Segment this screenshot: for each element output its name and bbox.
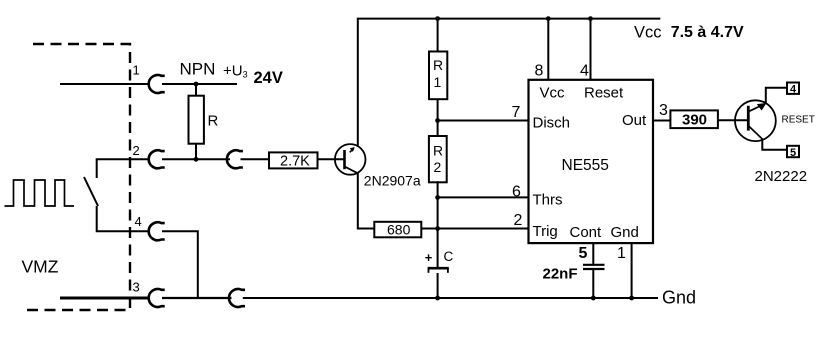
connector pin3 xyxy=(149,289,165,307)
svg-text:5: 5 xyxy=(579,245,588,262)
svg-text:4: 4 xyxy=(580,63,589,80)
connector pin4 xyxy=(149,222,165,240)
svg-text:1: 1 xyxy=(617,245,626,262)
node junction pin1/R xyxy=(194,82,199,87)
wire Q1 emitter to top rail xyxy=(357,19,359,147)
wire pin5 xyxy=(592,243,594,264)
wire pin1 left xyxy=(60,83,150,85)
node junction Thrs xyxy=(435,195,440,200)
wire pin1 gnd xyxy=(631,243,633,298)
svg-text:RESET: RESET xyxy=(782,115,815,126)
svg-text:2: 2 xyxy=(133,143,140,158)
svg-text:6: 6 xyxy=(512,183,521,200)
resistor 2.7K xyxy=(269,152,318,168)
wire R top xyxy=(195,84,197,96)
node junction pin2/R xyxy=(194,157,199,162)
wire to 2.7K xyxy=(241,158,270,160)
transistor Q1 2N2907a xyxy=(335,144,366,175)
svg-text:+: + xyxy=(425,250,433,265)
wire C to gnd rail xyxy=(437,273,439,298)
gnd rail xyxy=(243,297,658,299)
svg-text:2: 2 xyxy=(434,159,442,175)
connector pin2 mate xyxy=(227,150,243,168)
connector pin2 xyxy=(149,150,165,168)
wire 680 to Trig xyxy=(422,228,529,230)
switch lower wire xyxy=(97,206,150,231)
wire Q1 collector down xyxy=(358,173,374,229)
node junction pin1/gnd xyxy=(629,296,634,301)
Vcc top rail xyxy=(357,18,661,20)
wire pin3 thick left xyxy=(60,297,150,300)
svg-text:4: 4 xyxy=(790,84,797,96)
svg-text:R: R xyxy=(208,113,219,130)
svg-text:2N2222: 2N2222 xyxy=(755,168,808,185)
svg-text:VMZ: VMZ xyxy=(22,257,59,277)
wire 390 to Q2 base xyxy=(718,119,748,121)
svg-text:680: 680 xyxy=(387,222,411,238)
resistor R2 xyxy=(429,136,447,182)
svg-text:Thrs: Thrs xyxy=(533,192,563,209)
svg-text:Vcc: Vcc xyxy=(540,85,566,102)
svg-text:NE555: NE555 xyxy=(562,157,609,174)
switch lever xyxy=(84,177,98,206)
svg-text:7: 7 xyxy=(512,104,521,121)
svg-text:Vcc: Vcc xyxy=(634,24,662,42)
node junction Trig/680 xyxy=(435,226,440,231)
wire rail to R1 xyxy=(437,19,439,52)
wire 2.7K to Q1 base xyxy=(318,158,345,160)
wire pin2 left (to switch) xyxy=(96,158,150,160)
svg-text:Trig: Trig xyxy=(533,223,558,240)
terminal 4 box xyxy=(787,83,799,94)
wire R bottom xyxy=(195,144,197,160)
svg-text:2.7K: 2.7K xyxy=(280,154,310,170)
wire pin4 to down corner xyxy=(162,231,198,298)
svg-text:3: 3 xyxy=(133,280,140,295)
svg-text:4: 4 xyxy=(135,214,142,229)
svg-text:Reset: Reset xyxy=(584,85,624,102)
wire pin8 xyxy=(547,19,549,81)
svg-text:R: R xyxy=(433,57,443,73)
wire R2 down xyxy=(437,181,439,267)
svg-text:7.5 à 4.7V: 7.5 à 4.7V xyxy=(671,24,744,41)
svg-text:C: C xyxy=(444,249,454,264)
svg-text:Disch: Disch xyxy=(533,115,571,132)
wire 22nF to gnd xyxy=(592,270,594,299)
svg-text:Out: Out xyxy=(622,112,647,129)
svg-text:8: 8 xyxy=(535,63,544,80)
wire R1 to R2 xyxy=(437,99,439,137)
connector pin1 xyxy=(149,75,165,93)
svg-text:1: 1 xyxy=(133,63,140,78)
wire pin3 right xyxy=(162,297,232,299)
node junction C/gnd xyxy=(435,296,440,301)
svg-text:Gnd: Gnd xyxy=(662,288,696,308)
resistor R1 xyxy=(429,52,447,100)
svg-text:2N2907a: 2N2907a xyxy=(364,173,421,189)
terminal 5 box xyxy=(787,146,799,157)
node junction Disch xyxy=(435,118,440,123)
svg-text:R: R xyxy=(433,143,443,159)
svg-text:390: 390 xyxy=(682,112,707,129)
wire Disch xyxy=(438,120,529,122)
node junction pin5/gnd xyxy=(591,296,596,301)
capacitor C xyxy=(428,268,449,273)
svg-text:22nF: 22nF xyxy=(543,266,578,283)
svg-text:Cont: Cont xyxy=(570,224,603,241)
wire Out to 390 xyxy=(653,120,671,122)
connector pin3 mate xyxy=(229,289,245,307)
wire Thrs xyxy=(438,196,529,198)
svg-text:NPN: NPN xyxy=(180,60,216,79)
wire Q2 top to terminal 4 xyxy=(766,88,787,104)
capacitor 22nF xyxy=(583,265,605,269)
switch upper contact wire xyxy=(96,159,98,178)
svg-text:3: 3 xyxy=(659,102,668,119)
square wave input signal symbol xyxy=(5,180,75,206)
dashed enclosure box (VMZ unit boundary) xyxy=(21,44,130,310)
wire pin4 xyxy=(590,19,592,81)
node junction rail/pin4 xyxy=(588,16,593,21)
node junction rail/R1 xyxy=(435,16,440,21)
transistor Q2 2N2222 xyxy=(735,100,776,141)
resistor 390 xyxy=(670,110,718,128)
resistor R xyxy=(189,96,204,144)
svg-text:Gnd: Gnd xyxy=(611,224,639,241)
svg-text:2: 2 xyxy=(514,212,523,229)
wire Q2 bottom to terminal 5 xyxy=(762,139,787,150)
IC U1 NE555 body xyxy=(529,80,654,243)
svg-text:24V: 24V xyxy=(254,69,283,87)
wire pin2 right xyxy=(162,158,230,160)
svg-text:5: 5 xyxy=(790,147,796,159)
wire pin1 right xyxy=(162,83,237,85)
svg-text:1: 1 xyxy=(434,74,442,90)
node junction rail/pin8 xyxy=(546,16,551,21)
resistor 680 xyxy=(374,222,421,238)
